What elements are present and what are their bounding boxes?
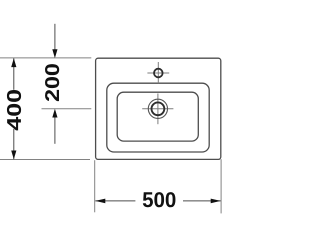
500 arrowhead right xyxy=(211,199,221,204)
500 dimension line right segment xyxy=(183,200,221,202)
washbasin outer rim rectangle xyxy=(96,58,221,159)
200 dimension top tail xyxy=(54,24,56,50)
200 label xyxy=(45,64,59,101)
500 left extension line xyxy=(94,160,96,212)
faucet hole circle xyxy=(154,69,163,78)
400 arrowhead up xyxy=(11,58,16,67)
200 arrowhead down xyxy=(52,49,57,58)
bottom extension line (400 dim) xyxy=(0,159,90,161)
faucet hole crosshair horizontal xyxy=(147,72,169,74)
basin bowl rounded rectangle xyxy=(117,92,198,141)
drain-level extension line (200 dim) xyxy=(42,108,92,110)
500 label xyxy=(143,192,176,207)
drain crosshair vertical xyxy=(157,94,159,125)
inner rim rounded rectangle xyxy=(107,83,209,152)
400 dimension line lower segment xyxy=(13,129,15,159)
drain inner circle xyxy=(152,102,165,115)
400 arrowhead down xyxy=(11,151,16,160)
200 dimension bottom tail xyxy=(54,118,56,144)
500 right extension line xyxy=(220,159,222,213)
drain crosshair horizontal xyxy=(142,108,173,110)
400 dimension line upper segment xyxy=(13,58,15,90)
500 dimension line left segment xyxy=(95,200,135,202)
drain outer circle xyxy=(148,99,167,118)
400 label xyxy=(7,90,21,130)
top extension line xyxy=(0,57,91,59)
faucet hole crosshair vertical xyxy=(157,62,159,83)
200 arrowhead up xyxy=(52,109,57,118)
500 arrowhead left xyxy=(95,199,105,204)
